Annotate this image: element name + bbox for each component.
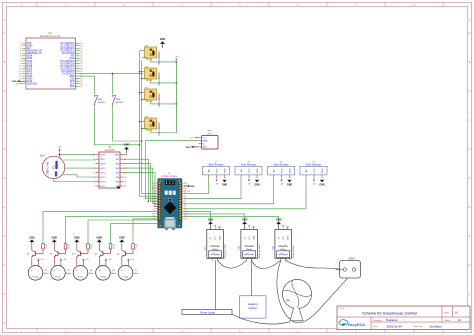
svg-text:GND: GND bbox=[208, 218, 214, 221]
svg-text:Scheme for Greenhouse Control: Scheme for Greenhouse Control bbox=[362, 311, 417, 315]
soil sensor U7 body bbox=[235, 161, 262, 178]
resistor R1 bbox=[42, 244, 48, 250]
+5V rail for relays bbox=[174, 56, 178, 132]
title block bbox=[337, 306, 470, 330]
wire Arduino to pump 3 resistor bbox=[88, 220, 158, 244]
Arduino ground flag right bbox=[183, 185, 195, 188]
TH1 +5V flag bbox=[190, 137, 198, 140]
svg-text:Company:: Company: bbox=[373, 320, 383, 322]
svg-text:-: - bbox=[105, 269, 106, 272]
svg-text:B: B bbox=[4, 60, 6, 64]
wire relay K1 right pin to +5V rail bbox=[151, 60, 178, 63]
relay module U10 body bbox=[239, 227, 261, 263]
svg-text:Pump: Pump bbox=[123, 276, 129, 278]
wire Arduino to pump 5 resistor bbox=[133, 219, 158, 244]
resistor R5 bbox=[132, 244, 138, 250]
pump P4 body bbox=[96, 266, 117, 281]
wire SW2 down to bus bbox=[113, 105, 143, 142]
svg-text:-: - bbox=[128, 269, 129, 272]
svg-text:Pump: Pump bbox=[78, 276, 84, 278]
module 3 ground flag bbox=[276, 218, 282, 229]
svg-text:DATA: DATA bbox=[202, 140, 207, 143]
svg-text:Water: Water bbox=[66, 272, 71, 275]
svg-text:Sheet:: Sheet: bbox=[445, 319, 451, 322]
svg-text:Module: Module bbox=[211, 244, 221, 248]
wire U3 to SW2 and relay bus bbox=[80, 73, 143, 75]
wire module1 to grow lamp bbox=[215, 260, 217, 309]
svg-text:GND: GND bbox=[276, 218, 282, 221]
svg-text:GND: GND bbox=[242, 218, 248, 221]
svg-text:1k: 1k bbox=[68, 248, 70, 250]
svg-text:Water: Water bbox=[134, 272, 139, 275]
ground flag above pump 2 bbox=[52, 236, 58, 250]
wire soil sensor 1 AO to Arduino bbox=[183, 178, 208, 193]
ground flag above pump 4 bbox=[97, 236, 103, 250]
svg-text:REV:: REV: bbox=[445, 312, 450, 314]
svg-text:Soil Sensor: Soil Sensor bbox=[273, 163, 288, 167]
wire relay K4 left pins to bus bbox=[139, 121, 147, 129]
svg-text:-: - bbox=[60, 269, 61, 272]
svg-text:-: - bbox=[83, 269, 84, 272]
svg-text:ULN2003: ULN2003 bbox=[104, 149, 115, 152]
pump P1 body bbox=[28, 266, 49, 281]
wire soil sensor 4 AO to Arduino bbox=[183, 178, 306, 209]
wire +5V to U4 COM pin bbox=[59, 154, 96, 156]
svg-text:GND: GND bbox=[322, 168, 324, 173]
svg-text:Ilia Sataur: Ilia Sataur bbox=[430, 324, 442, 328]
transistor Q3 bbox=[72, 249, 88, 257]
svg-text:GND: GND bbox=[190, 186, 195, 188]
svg-text:SRD-05VDC: SRD-05VDC bbox=[158, 72, 161, 86]
soil sensor 1 ground flag bbox=[222, 180, 228, 187]
svg-text:VCC: VCC bbox=[249, 235, 251, 240]
Arduino pin labels bbox=[152, 183, 189, 220]
svg-text:GND: GND bbox=[288, 235, 290, 240]
svg-text:230V: 230V bbox=[348, 256, 354, 260]
wire MG1 pin C to U4 bbox=[63, 175, 96, 177]
soil sensor 2 ground flag bbox=[254, 180, 260, 187]
wire relay K2 right pin to +5V rail bbox=[151, 81, 178, 84]
relay K2 body bbox=[145, 67, 161, 86]
wire relay K4 right pin to +5V rail bbox=[151, 131, 177, 133]
svg-text:OUT4: OUT4 bbox=[100, 172, 106, 174]
svg-text:GND: GND bbox=[219, 235, 221, 240]
svg-text:Water: Water bbox=[89, 272, 94, 275]
svg-text:OUT6: OUT6 bbox=[100, 164, 106, 166]
EasyEDA logo bbox=[339, 319, 365, 327]
pump P3 +5V flag bbox=[82, 258, 89, 266]
svg-text:E: E bbox=[469, 234, 471, 238]
wire transistor to pump 4 bbox=[98, 257, 100, 267]
svg-text:Soil Sensor: Soil Sensor bbox=[241, 163, 256, 167]
switch SW1 bbox=[94, 95, 106, 105]
svg-text:Water: Water bbox=[111, 272, 116, 275]
wire Arduino to module 3 bbox=[183, 216, 278, 224]
pump P3 body bbox=[73, 266, 94, 281]
svg-text:+5V: +5V bbox=[285, 227, 289, 229]
soil sensor 2 +5V flag bbox=[247, 178, 251, 185]
mains wire module3 to outlet bbox=[286, 260, 344, 269]
wire Arduino to pump 2 resistor bbox=[66, 216, 159, 243]
svg-text:Carpet: Carpet bbox=[248, 306, 257, 310]
svg-text:MODIFY: MODIFY bbox=[116, 102, 124, 104]
svg-text:SRD-05VDC: SRD-05VDC bbox=[158, 122, 161, 136]
svg-text:6: 6 bbox=[94, 168, 95, 170]
relay K3 body bbox=[145, 88, 161, 107]
svg-text:Module: Module bbox=[279, 244, 289, 248]
wire transistor to pump 5 bbox=[121, 257, 123, 267]
wire soil sensor 2 AO to Arduino bbox=[183, 178, 241, 198]
sensor TH1 DHT11 body bbox=[198, 130, 218, 149]
svg-text:NodeMCU-Lua-32: NodeMCU-Lua-32 bbox=[40, 35, 61, 38]
heating carpet bbox=[240, 296, 267, 318]
U3 right pins bbox=[61, 42, 83, 88]
svg-text:3: 3 bbox=[94, 181, 95, 183]
wire Arduino to pump 4 resistor bbox=[111, 224, 159, 244]
svg-text:+5V: +5V bbox=[251, 227, 255, 229]
+5V flag above MG1 bbox=[58, 147, 62, 156]
svg-text:1.0: 1.0 bbox=[455, 311, 459, 315]
ground flag above pump 3 bbox=[74, 236, 80, 250]
svg-text:C: C bbox=[4, 118, 6, 122]
svg-text:TX1: TX1 bbox=[184, 219, 187, 221]
relay bus wire left vertical 1 bbox=[140, 51, 159, 197]
resistor R3 bbox=[87, 244, 93, 250]
svg-text:GND: GND bbox=[202, 147, 207, 149]
Arduino +5V flag right bbox=[183, 191, 191, 193]
svg-text:14: 14 bbox=[124, 177, 126, 179]
svg-text:35: 35 bbox=[80, 86, 82, 88]
pump P5 body bbox=[118, 266, 139, 281]
soil sensor 3 ground flag bbox=[287, 180, 293, 187]
svg-text:AO: AO bbox=[272, 169, 275, 172]
svg-text:1k: 1k bbox=[113, 248, 115, 250]
svg-text:GND: GND bbox=[74, 236, 80, 239]
wire soil sensor 3 AO to Arduino bbox=[183, 178, 273, 204]
ground flag above pump 1 bbox=[29, 236, 35, 250]
svg-text:+5V: +5V bbox=[174, 56, 178, 58]
svg-text:+5V: +5V bbox=[58, 147, 62, 149]
svg-text:VCC: VCC bbox=[215, 235, 217, 240]
wire Arduino to pump 1 resistor bbox=[43, 211, 158, 243]
svg-text:DHT11: DHT11 bbox=[206, 133, 213, 135]
svg-text:Pump: Pump bbox=[100, 276, 106, 278]
svg-text:OUT3: OUT3 bbox=[100, 177, 106, 179]
soil sensor 4 +5V flag bbox=[312, 178, 316, 185]
switch SW2 bbox=[112, 95, 124, 105]
module 2 ground flag bbox=[242, 218, 248, 229]
svg-text:GND: GND bbox=[254, 235, 256, 240]
wire transistor to pump 3 bbox=[76, 257, 78, 267]
wire U4 IN7 to Arduino bbox=[123, 164, 158, 202]
svg-text:AO: AO bbox=[240, 169, 243, 172]
soil sensor U8 body bbox=[268, 161, 295, 178]
svg-text:SD0: SD0 bbox=[70, 85, 75, 88]
U4 ground flag bbox=[123, 144, 129, 155]
wire branch down to SW2 bbox=[112, 74, 114, 95]
svg-text:SHD/SD2: SHD/SD2 bbox=[27, 83, 38, 86]
svg-text:Relay for Fan: Relay for Fan bbox=[292, 244, 295, 257]
svg-text:E: E bbox=[4, 234, 6, 238]
soil sensor 3 +5V flag bbox=[280, 178, 284, 185]
svg-text:GND: GND bbox=[287, 183, 293, 186]
soil sensor U9 body bbox=[300, 161, 327, 178]
svg-text:GND: GND bbox=[114, 155, 119, 157]
svg-text:16: 16 bbox=[124, 186, 126, 188]
wire TH1 data to Arduino bbox=[145, 141, 198, 199]
svg-text:SRD-05VDC: SRD-05VDC bbox=[158, 93, 161, 107]
svg-text:GND: GND bbox=[186, 147, 191, 149]
ground flag above relay column bbox=[160, 38, 166, 48]
svg-text:2021-01-04: 2021-01-04 bbox=[387, 324, 403, 328]
svg-text:AO: AO bbox=[207, 169, 210, 172]
svg-text:VCC: VCC bbox=[283, 235, 285, 240]
wire U4 IN6 to Arduino bbox=[123, 168, 158, 204]
svg-text:7: 7 bbox=[94, 163, 95, 165]
svg-text:GND: GND bbox=[29, 236, 35, 239]
svg-text:GND: GND bbox=[160, 38, 166, 41]
resistor R4 bbox=[109, 244, 115, 250]
mains wave wire module1 to module2 bbox=[217, 260, 247, 268]
svg-text:OUT5: OUT5 bbox=[100, 168, 106, 170]
svg-text:1: 1 bbox=[211, 261, 212, 263]
mains wave wire module2 to module3 bbox=[252, 260, 281, 268]
pump P4 +5V flag bbox=[105, 258, 112, 266]
svg-text:SRD-05VDC: SRD-05VDC bbox=[158, 51, 161, 65]
svg-text:OUT1: OUT1 bbox=[100, 186, 106, 188]
wire U4 IN5 to Arduino bbox=[123, 173, 158, 207]
relay K1 body bbox=[145, 46, 161, 65]
svg-text:1k: 1k bbox=[45, 248, 47, 250]
module 1 ground flag bbox=[208, 218, 214, 229]
pump P5 +5V flag bbox=[127, 258, 134, 266]
svg-text:1/1: 1/1 bbox=[458, 318, 462, 322]
wire transistor to pump 2 bbox=[53, 257, 55, 267]
module 1 +5V flag bbox=[214, 224, 221, 229]
fan bbox=[282, 279, 311, 308]
svg-text:Pump: Pump bbox=[33, 276, 39, 278]
wire relay K3 right pin to +5V rail bbox=[151, 102, 178, 105]
svg-text:8: 8 bbox=[94, 159, 95, 161]
svg-text:GND: GND bbox=[257, 168, 259, 173]
svg-text:Relay for Heat: Relay for Heat bbox=[258, 244, 261, 258]
svg-text:28BYJ-48: 28BYJ-48 bbox=[46, 162, 50, 175]
relay module U9 body bbox=[205, 227, 227, 263]
pump P1 +5V flag bbox=[37, 258, 44, 266]
wire MG1 pin A to U4 bbox=[65, 159, 95, 161]
svg-text:MG1: MG1 bbox=[40, 154, 46, 157]
svg-text:GND: GND bbox=[254, 183, 260, 186]
svg-text:VCC: VCC bbox=[314, 168, 316, 173]
wire Arduino to module 1 bbox=[183, 211, 210, 224]
wire relay K3 left pins to bus bbox=[139, 92, 147, 100]
svg-text:D: D bbox=[469, 176, 471, 180]
svg-text:GND: GND bbox=[124, 144, 130, 147]
grow lamp bbox=[182, 309, 232, 314]
+5V arrow at U4 COM bbox=[93, 154, 95, 156]
relay K4 body bbox=[145, 117, 161, 136]
svg-text:+5V: +5V bbox=[217, 227, 221, 229]
relay bus wire left vertical 2 bbox=[142, 60, 158, 194]
pump P2 +5V flag bbox=[60, 258, 67, 266]
pump P2 body bbox=[51, 266, 72, 281]
ground flag above pump 5 bbox=[119, 236, 125, 250]
svg-text:1k: 1k bbox=[135, 248, 137, 250]
fan enclosure curve bbox=[277, 260, 354, 323]
soil sensor 1 +5V flag bbox=[215, 178, 219, 185]
wire relay K2 left pins to bus bbox=[139, 71, 147, 79]
svg-text:Module: Module bbox=[245, 244, 255, 248]
wire SW1 down to bus bbox=[95, 105, 141, 145]
svg-text:D: D bbox=[4, 176, 6, 180]
U3 +5V flag bbox=[15, 83, 26, 86]
svg-text:Soil Sensor: Soil Sensor bbox=[208, 163, 223, 167]
svg-text:1k: 1k bbox=[90, 248, 92, 250]
svg-text:A: A bbox=[469, 18, 471, 22]
svg-text:GND: GND bbox=[222, 183, 228, 186]
svg-text:Soil Sensor: Soil Sensor bbox=[306, 163, 321, 167]
U3 ground flag bbox=[12, 80, 26, 83]
svg-text:EasyEDA: EasyEDA bbox=[348, 322, 366, 327]
relay module U11 body bbox=[273, 227, 295, 263]
wire grow lamp to fan enclosure bbox=[232, 314, 290, 324]
svg-text:GND: GND bbox=[97, 236, 103, 239]
svg-text:Arduino Nano: Arduino Nano bbox=[162, 174, 178, 178]
svg-text:4: 4 bbox=[94, 177, 95, 179]
module 2 +5V flag bbox=[248, 224, 255, 229]
wire relay K1 left pins to bus bbox=[140, 51, 147, 58]
svg-text:Date:: Date: bbox=[373, 325, 378, 328]
svg-text:Relay for Lamp: Relay for Lamp bbox=[224, 244, 227, 259]
transistor Q2 bbox=[49, 249, 65, 257]
svg-text:Grow Lamp: Grow Lamp bbox=[200, 310, 215, 314]
svg-text:Water: Water bbox=[44, 272, 49, 275]
transistor Q4 bbox=[94, 249, 110, 257]
wire outlet left pin bbox=[336, 268, 344, 270]
svg-text:TITLE:: TITLE: bbox=[339, 308, 345, 310]
svg-text:GND: GND bbox=[224, 168, 226, 173]
module 3 +5V flag bbox=[282, 224, 289, 229]
svg-text:GND: GND bbox=[52, 236, 58, 239]
svg-text:2: 2 bbox=[94, 186, 95, 188]
svg-text:GND: GND bbox=[289, 168, 291, 173]
svg-text:Freelance: Freelance bbox=[386, 318, 398, 322]
transistor Q5 bbox=[117, 249, 133, 257]
svg-text:VCC: VCC bbox=[202, 137, 207, 139]
Arduino Nano board bbox=[158, 173, 182, 230]
svg-text:B: B bbox=[469, 60, 471, 64]
svg-text:GND: GND bbox=[319, 183, 325, 186]
svg-text:Drawn By:: Drawn By: bbox=[413, 326, 423, 328]
IC U4 ULN2003 body bbox=[94, 146, 126, 189]
wire U4 IN junction to Arduino bbox=[123, 159, 149, 202]
svg-text:VCC: VCC bbox=[216, 168, 218, 173]
svg-text:VCC: VCC bbox=[249, 168, 251, 173]
svg-text:-: - bbox=[38, 269, 39, 272]
soil sensor 4 ground flag bbox=[319, 180, 325, 187]
IC U3 NodeMCU-32 body bbox=[26, 32, 76, 89]
svg-text:15: 15 bbox=[124, 181, 126, 183]
resistor R2 bbox=[64, 244, 70, 250]
wire module2 to heating carpet bbox=[251, 260, 253, 295]
svg-text:OUT2: OUT2 bbox=[100, 181, 106, 183]
fan stand bbox=[290, 308, 303, 321]
mains outlet 230V bbox=[340, 256, 361, 278]
wire MG1 pin D to U4 bbox=[54, 179, 96, 181]
soil sensor U6 body bbox=[203, 161, 230, 178]
svg-text:MODIFY: MODIFY bbox=[98, 102, 106, 104]
svg-text:5: 5 bbox=[94, 172, 95, 174]
wire U3 to SW1 bbox=[80, 76, 95, 94]
svg-text:COM: COM bbox=[100, 155, 105, 157]
svg-text:VCC: VCC bbox=[281, 168, 283, 173]
svg-text:Pump: Pump bbox=[55, 276, 61, 278]
svg-text:OUT7: OUT7 bbox=[100, 159, 106, 161]
wire MG1 pin B to U4 bbox=[65, 167, 95, 169]
svg-text:C: C bbox=[469, 118, 471, 122]
wire Arduino to module 2 bbox=[183, 214, 244, 225]
TH1 ground flag bbox=[186, 146, 199, 149]
svg-text:A: A bbox=[4, 18, 6, 22]
svg-text:15: 15 bbox=[19, 78, 21, 80]
svg-text:fan: fan bbox=[286, 298, 290, 302]
svg-text:AO: AO bbox=[305, 169, 308, 172]
wire transistor to pump 1 bbox=[31, 257, 33, 267]
transistor Q1 bbox=[27, 249, 43, 257]
svg-text:GND: GND bbox=[119, 236, 125, 239]
motor MG1 body bbox=[40, 154, 65, 179]
